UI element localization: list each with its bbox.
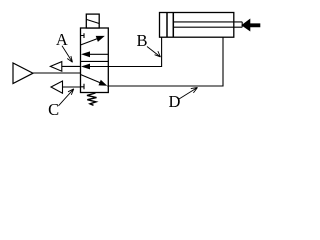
cylinder CY1 barrel — [160, 13, 234, 38]
label C leader arrow — [59, 89, 74, 106]
label B leader arrow — [147, 47, 161, 58]
wire supply P to valve — [33, 72, 81, 74]
source triangle — [13, 63, 33, 84]
svg-text:D: D — [168, 92, 180, 111]
cylinder CY1 piston rod — [173, 22, 242, 27]
valve V1 top box diagonal flow arrow — [81, 38, 100, 45]
wire valve out2 long run — [107, 85, 223, 87]
wire riser to cylinder rod end — [222, 37, 224, 86]
valve V1 pilot actuator diagonal — [86, 19, 99, 23]
valve V1 bottom box blocked port tick — [81, 84, 85, 90]
valve V1 position divider — [81, 60, 109, 62]
exhaust arrow port A — [50, 62, 61, 72]
valve V1 bottom box left flow arrow — [86, 66, 108, 68]
exhaust arrow port C — [51, 81, 63, 93]
valve V1 top box blocked port tick — [81, 33, 85, 38]
valve V1 pilot actuator box — [86, 14, 99, 28]
cylinder CY1 piston line 1 — [166, 13, 168, 38]
label D leader arrow — [179, 88, 198, 100]
wire port C — [63, 86, 81, 88]
load force arrow on rod — [241, 19, 260, 32]
valve V1 body — [81, 28, 109, 93]
wire riser to cylinder cap end — [161, 37, 163, 67]
label A leader arrow — [62, 46, 73, 63]
wire port A — [62, 65, 81, 67]
svg-text:C: C — [48, 100, 59, 119]
valve V1 return spring — [87, 93, 97, 105]
svg-text:B: B — [136, 31, 147, 50]
wire valve out1 to riser — [108, 66, 161, 68]
cylinder CY1 piston line 2 — [172, 13, 174, 38]
valve V1 bottom box diagonal flow arrow — [81, 75, 101, 83]
valve V1 top box left flow arrow — [86, 53, 108, 55]
